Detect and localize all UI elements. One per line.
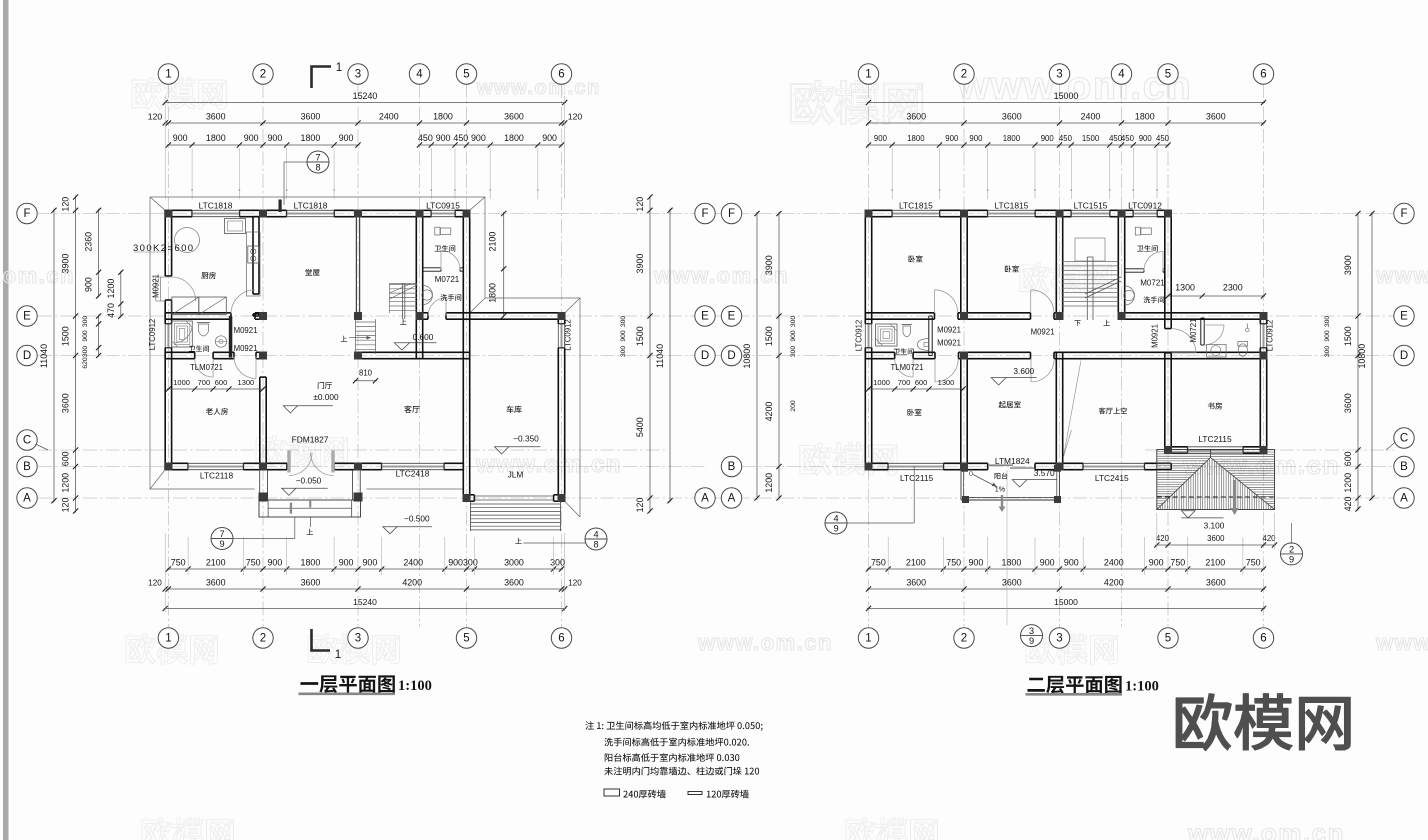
- svg-text:M0721: M0721: [1189, 319, 1198, 343]
- plan1 outside steps at kitchen door: [155, 277, 157, 301]
- plan2 bottom extension lines: [887, 537, 889, 575]
- svg-text:M0921: M0921: [937, 326, 961, 335]
- svg-text:3600: 3600: [301, 112, 321, 122]
- svg-text:3600: 3600: [301, 578, 321, 588]
- plan1 axis circles bottom: [158, 628, 178, 648]
- plan2 balcony door LTM1824 sliding: [989, 464, 1013, 466]
- svg-text:1300: 1300: [238, 378, 255, 387]
- plan2 window LTC1815 bay1-2: [892, 210, 939, 216]
- legend 240 wall symbol: [604, 789, 620, 796]
- svg-text:1: 1: [335, 649, 341, 661]
- svg-text:D: D: [701, 350, 709, 362]
- svg-text:B: B: [23, 461, 31, 473]
- svg-text:1: 1: [165, 69, 171, 81]
- svg-text:900: 900: [945, 134, 959, 143]
- svg-text:3600: 3600: [906, 112, 926, 122]
- plan2 left overall dim 10800: [756, 212, 758, 500]
- svg-text:C: C: [1400, 433, 1408, 445]
- plan1 bath1 sink: [215, 336, 226, 347]
- plan2 bath door arc top: [1144, 252, 1163, 271]
- plan2 room label balcony: [995, 473, 1008, 480]
- watermark texts: [132, 78, 226, 109]
- svg-text:5: 5: [463, 69, 469, 81]
- plan1 left overall dim 11040: [53, 209, 55, 502]
- plan1 garage ramp: [470, 501, 472, 531]
- plan1 top bath door arc: [441, 251, 460, 270]
- plan2 balcony drain arrow: [1001, 495, 1003, 508]
- svg-text:4: 4: [593, 529, 598, 539]
- svg-text:LTC0912: LTC0912: [1128, 201, 1162, 211]
- svg-text:2400: 2400: [403, 558, 423, 568]
- plan1 top overall dim 15240: [164, 102, 567, 104]
- svg-text:11040: 11040: [39, 344, 49, 368]
- plan1 axis circles right mid-column: [695, 203, 715, 223]
- svg-text:750: 750: [1170, 558, 1185, 568]
- svg-text:450: 450: [1156, 134, 1170, 143]
- plan1 top bath toilet: [435, 227, 440, 235]
- svg-text:LTC2115: LTC2115: [900, 473, 934, 483]
- plan2 right overall dim 10800: [1371, 212, 1373, 500]
- svg-text:900: 900: [267, 558, 282, 568]
- plan2 bedroom2 door arc: [1031, 290, 1054, 313]
- svg-text:LTC0912: LTC0912: [564, 319, 573, 351]
- plan2 top-right dim 1300/2300: [1167, 295, 1266, 297]
- plan2 interior dim 1000/700/600/1300: [867, 388, 965, 390]
- plan1 wall along F: [165, 209, 192, 211]
- plan2 window LTC2415 at B: [1083, 463, 1144, 469]
- svg-text:−0.050: −0.050: [296, 475, 322, 485]
- plan1 left window chain 300/900/300: [98, 315, 100, 358]
- plan2 balcony leader line: [1006, 470, 1008, 625]
- svg-text:F: F: [728, 208, 735, 220]
- svg-text:900: 900: [339, 558, 354, 568]
- plan2 bottom bay dims row: [867, 588, 1265, 590]
- plan1 garage ramp up label: [515, 538, 521, 544]
- svg-text:1200: 1200: [61, 473, 71, 493]
- svg-text:11040: 11040: [655, 344, 665, 368]
- plan2 wall along F: [865, 209, 892, 211]
- svg-text:2100: 2100: [1205, 558, 1225, 568]
- svg-text:120: 120: [635, 498, 645, 513]
- plan1 left wall axis1: [164, 210, 166, 276]
- svg-text:C: C: [23, 435, 31, 447]
- svg-text:LTC1515: LTC1515: [1074, 201, 1108, 211]
- plan1 wall axis6 garage right: [557, 313, 559, 324]
- svg-text:F: F: [701, 208, 708, 220]
- plan1 callout 4/8: [585, 528, 607, 550]
- plan2 window LTC1515 bay3-4: [1071, 210, 1109, 216]
- plan2 title: [1027, 676, 1121, 694]
- plan2 small bath partition: [1200, 318, 1202, 345]
- svg-text:4: 4: [833, 513, 838, 523]
- svg-text:900: 900: [362, 558, 377, 568]
- svg-text:B: B: [1400, 461, 1408, 473]
- plan2 left bath shower: [876, 324, 898, 346]
- svg-text:3600: 3600: [906, 578, 926, 588]
- svg-text:2100: 2100: [488, 232, 498, 252]
- plan1 window LTC1818 bay1-2: [192, 210, 239, 216]
- svg-text:6: 6: [558, 69, 564, 81]
- plan1 wall along B: [165, 462, 188, 464]
- svg-text:300: 300: [550, 558, 565, 568]
- plan2 small bath door arc: [1204, 325, 1224, 345]
- plan2 room label bedroom2: [1005, 265, 1019, 272]
- plan2 columns: [865, 210, 873, 218]
- plan2 wall along B: [865, 462, 888, 464]
- plan2 room label washroom: [1143, 296, 1164, 303]
- svg-text:2360: 2360: [84, 232, 94, 252]
- svg-text:M0921: M0921: [234, 344, 258, 353]
- svg-text:450: 450: [418, 133, 433, 143]
- svg-text:750: 750: [171, 558, 186, 568]
- horizontal axis line E: [38, 315, 1394, 317]
- svg-text:700: 700: [198, 378, 211, 387]
- svg-text:2: 2: [1289, 544, 1294, 554]
- svg-text:1800: 1800: [1135, 112, 1155, 122]
- svg-text:1800: 1800: [504, 133, 524, 143]
- plan1 window LTC2118 at B: [188, 463, 243, 469]
- svg-text:900: 900: [1041, 134, 1055, 143]
- svg-text:www.om.cn: www.om.cn: [475, 451, 622, 478]
- plan1 elder room door arc: [234, 357, 256, 379]
- plan1 kitchen circle: [175, 228, 200, 253]
- plan1 stair up label: [400, 319, 406, 325]
- plan2 left bath sink: [918, 339, 929, 351]
- horizontal axis line C: [38, 449, 665, 451]
- plan2 axis circles left column: [721, 203, 741, 223]
- svg-text:www.om.cn: www.om.cn: [1187, 818, 1345, 840]
- svg-text:900: 900: [969, 134, 983, 143]
- svg-text:2400: 2400: [379, 112, 399, 122]
- plan2 axis circles bottom: [858, 628, 878, 648]
- plan1 room label living room: [404, 406, 419, 413]
- svg-text:3600: 3600: [504, 112, 524, 122]
- svg-text:M0921: M0921: [152, 274, 161, 298]
- svg-text:7: 7: [219, 529, 224, 539]
- plan1 room label bathroom left: [189, 345, 209, 351]
- svg-text:900: 900: [339, 133, 354, 143]
- svg-text:6: 6: [558, 633, 564, 645]
- svg-text:JLM: JLM: [508, 470, 524, 480]
- plan1 window LTC0915 bay4-5: [431, 210, 455, 216]
- horizontal axis line A: [38, 497, 1394, 499]
- plan2 callout 3/9: [1021, 625, 1043, 647]
- svg-text:15240: 15240: [353, 91, 378, 101]
- svg-text:900: 900: [244, 133, 259, 143]
- svg-text:120: 120: [568, 579, 582, 588]
- plan1 overhang corner ties: [150, 197, 165, 210]
- svg-text:3.600: 3.600: [1013, 366, 1034, 376]
- plan1 window LTC0912 garage right wall: [558, 324, 564, 348]
- plan1 kitchen-hall partition: [252, 217, 254, 294]
- plan2 small bath toilet: [1238, 344, 1247, 356]
- svg-text:LTC1815: LTC1815: [994, 201, 1028, 211]
- svg-text:3900: 3900: [1343, 255, 1353, 275]
- plan1 interior dim 1000/700/600/1300: [167, 388, 265, 390]
- plan1 title: [300, 675, 394, 693]
- plan1 bottom sub dims row: [167, 568, 563, 570]
- svg-text:M0921: M0921: [937, 339, 961, 348]
- svg-text:FDM1827: FDM1827: [292, 435, 329, 445]
- svg-text:www.om.cn: www.om.cn: [1375, 630, 1428, 655]
- svg-text:900: 900: [874, 134, 888, 143]
- plan1 washroom sink: [423, 286, 433, 305]
- notes line2: [604, 738, 749, 747]
- svg-text:10800: 10800: [742, 344, 752, 369]
- plan1 kitchen counter and stove: [247, 232, 261, 296]
- svg-text:4200: 4200: [1104, 578, 1124, 588]
- svg-text:15240: 15240: [353, 597, 377, 607]
- plan1 lower flight up label: [341, 336, 347, 342]
- svg-text:600: 600: [215, 378, 228, 387]
- svg-text:2400: 2400: [1104, 558, 1124, 568]
- svg-text:1500: 1500: [1343, 326, 1353, 346]
- svg-text:D: D: [727, 350, 735, 362]
- svg-text:120: 120: [148, 112, 163, 122]
- plan2 bedroom1 door arc: [935, 290, 958, 313]
- svg-text:120: 120: [635, 197, 645, 212]
- svg-text:F: F: [1400, 208, 1407, 220]
- plan2 left wall: [864, 210, 866, 324]
- svg-text:900: 900: [448, 558, 463, 568]
- svg-text:9: 9: [833, 524, 838, 534]
- svg-text:3900: 3900: [61, 254, 71, 274]
- svg-text:LTC2115: LTC2115: [1198, 434, 1232, 444]
- svg-text:1800: 1800: [433, 112, 453, 122]
- svg-text:A: A: [701, 493, 709, 505]
- svg-text:3600: 3600: [504, 578, 524, 588]
- plan2 window LTC0912 left wall: [865, 324, 871, 348]
- svg-text:0.600: 0.600: [413, 332, 434, 342]
- plan1 room label hall-front: [305, 269, 319, 276]
- plan2 balcony corner columns: [961, 465, 968, 472]
- svg-text:900: 900: [790, 330, 797, 342]
- svg-text:300: 300: [82, 316, 89, 328]
- plan1 room label garage: [506, 406, 521, 414]
- plan1 bottom extension lines: [187, 537, 189, 575]
- svg-text:1: 1: [865, 633, 871, 645]
- plan2 right main chain: [1357, 212, 1359, 511]
- notes line3: [605, 753, 740, 762]
- plan2 callout 4/9: [825, 512, 847, 534]
- svg-text:1%: 1%: [995, 485, 1006, 494]
- svg-text:6: 6: [1260, 69, 1266, 81]
- svg-text:www.om.cn: www.om.cn: [1375, 263, 1428, 288]
- svg-text:450: 450: [453, 133, 468, 143]
- plan1 dim 810: [354, 380, 377, 382]
- plan2 roof gray arrows: [1233, 480, 1236, 510]
- plan1 left sub chain 2360/900: [98, 209, 100, 298]
- plan1 room label washroom: [440, 294, 461, 301]
- svg-text:LTC0912: LTC0912: [855, 320, 864, 352]
- svg-text:1: 1: [336, 62, 342, 74]
- plan1 stair rail: [390, 284, 418, 286]
- svg-text:420: 420: [1156, 534, 1170, 543]
- svg-text:M0921: M0921: [1151, 324, 1160, 348]
- svg-text:2300: 2300: [1223, 283, 1243, 293]
- svg-text:4: 4: [416, 69, 423, 81]
- plan1 bath partition y=269.5: [423, 267, 441, 269]
- notes line1: [585, 721, 762, 731]
- horizontal axis line D: [38, 355, 1394, 357]
- plan2 bedroom3 door arc: [935, 359, 958, 382]
- svg-text:3: 3: [355, 633, 361, 645]
- plan1 lower step flight: [355, 319, 357, 354]
- plan2 stairs down label: [1074, 320, 1080, 326]
- plan2 room label living void: [1099, 407, 1127, 414]
- plan2 wall along E: [865, 312, 934, 314]
- svg-text:120: 120: [568, 112, 583, 122]
- svg-text:2400: 2400: [1081, 112, 1101, 122]
- svg-text:LTC2415: LTC2415: [1095, 473, 1129, 483]
- plan2 room label bathroom top: [1137, 245, 1158, 252]
- svg-text:1500: 1500: [1082, 134, 1100, 143]
- svg-text:E: E: [728, 311, 736, 323]
- plan1 window LTC1818 bay2-3: [287, 210, 334, 216]
- svg-text:6: 6: [1260, 633, 1266, 645]
- svg-text:900: 900: [1040, 558, 1055, 568]
- plan1 room label entry hall: [318, 382, 332, 389]
- plan2 room label bathroom left: [894, 348, 914, 354]
- svg-text:750: 750: [1246, 558, 1261, 568]
- svg-text:900: 900: [173, 133, 188, 143]
- svg-text:1800: 1800: [1002, 558, 1022, 568]
- plan1 right garage window sub dims 2100/1800: [503, 212, 505, 318]
- svg-text:2: 2: [260, 69, 266, 81]
- svg-text:1200: 1200: [764, 473, 774, 493]
- svg-text:1800: 1800: [1003, 134, 1021, 143]
- svg-text:300: 300: [1324, 346, 1331, 358]
- svg-text:7: 7: [315, 152, 320, 162]
- svg-text:900: 900: [1139, 134, 1153, 143]
- svg-text:3600: 3600: [1343, 393, 1353, 413]
- plan1 garage wall along A with JLM opening: [463, 494, 474, 496]
- svg-text:−0.350: −0.350: [513, 433, 539, 443]
- plan2 stairs up label: [1104, 320, 1110, 326]
- plan2 room label living room 2F: [999, 401, 1021, 408]
- svg-text:D: D: [1400, 350, 1408, 362]
- plan2 window LTC0912 right wall: [1260, 324, 1266, 348]
- svg-text:9: 9: [219, 539, 224, 549]
- svg-text:D: D: [23, 350, 31, 362]
- svg-text:M0921: M0921: [1031, 328, 1055, 337]
- plan2 top overall dim 15000: [867, 102, 1265, 104]
- plan2 void break line: [1064, 361, 1082, 457]
- svg-text:1:100: 1:100: [1125, 679, 1159, 695]
- svg-text:8: 8: [593, 540, 598, 550]
- svg-text:M0721: M0721: [1140, 279, 1165, 288]
- plan2 vent pipe: [1246, 324, 1248, 329]
- svg-text:3.570: 3.570: [1034, 468, 1055, 478]
- plan2 left bath partition: [928, 316, 930, 356]
- svg-text:900: 900: [620, 330, 627, 342]
- plan1 kitchen sink: [225, 219, 246, 234]
- notes line4: [604, 767, 759, 776]
- plan1 porch step arrow: [309, 517, 311, 527]
- plan1 top extension lines: [191, 148, 193, 199]
- svg-text:300: 300: [82, 346, 89, 358]
- plan1 room label kitchen: [201, 272, 215, 279]
- svg-text:5: 5: [1165, 633, 1171, 645]
- svg-text:120: 120: [61, 498, 71, 513]
- svg-text:600: 600: [915, 378, 928, 387]
- plan2 window LTC1815 bay2-3: [988, 210, 1035, 216]
- plan2 stairs break line: [1062, 261, 1119, 263]
- svg-text:3600: 3600: [1206, 578, 1226, 588]
- svg-text:B: B: [728, 461, 736, 473]
- svg-text:900: 900: [436, 133, 451, 143]
- svg-text:1:100: 1:100: [398, 678, 432, 694]
- plan2 wall axis4 stairwell right: [1117, 210, 1119, 319]
- svg-text:120: 120: [148, 579, 162, 588]
- svg-text:±0.000: ±0.000: [313, 392, 339, 402]
- svg-text:200: 200: [790, 400, 797, 412]
- svg-text:5: 5: [463, 633, 469, 645]
- svg-text:2: 2: [260, 633, 266, 645]
- svg-text:3: 3: [1029, 626, 1034, 636]
- plan1 columns: [164, 210, 172, 218]
- svg-text:300: 300: [790, 316, 797, 328]
- plan2 axis circles top: [858, 64, 878, 84]
- svg-text:1800: 1800: [206, 133, 226, 143]
- svg-text:1500: 1500: [635, 326, 645, 346]
- svg-text:3000: 3000: [504, 558, 524, 568]
- plan1 kitchen-hall door arc: [231, 290, 255, 314]
- svg-text:420: 420: [1262, 534, 1276, 543]
- legend 120 wall symbol: [688, 792, 702, 795]
- svg-text:3: 3: [355, 69, 361, 81]
- svg-text:E: E: [1400, 311, 1408, 323]
- svg-text:15000: 15000: [1054, 597, 1078, 607]
- svg-text:4200: 4200: [402, 578, 422, 588]
- plan1 wall along E: [165, 312, 231, 314]
- svg-text:3: 3: [1056, 69, 1062, 81]
- svg-text:TLM0721: TLM0721: [891, 363, 924, 372]
- svg-text:1800: 1800: [301, 558, 321, 568]
- svg-text:3600: 3600: [1002, 112, 1022, 122]
- svg-text:3600: 3600: [1206, 112, 1226, 122]
- plan2 room label bedroom3: [907, 409, 921, 416]
- svg-text:3600: 3600: [1002, 578, 1022, 588]
- svg-text:5400: 5400: [635, 417, 645, 437]
- svg-text:9: 9: [1029, 636, 1034, 646]
- plan2 wall axis6: [1259, 313, 1261, 324]
- plan2 corridor door arc at axis5: [1172, 329, 1196, 353]
- plan1 right overall dim 11040: [669, 209, 671, 502]
- svg-text:TLM0721: TLM0721: [190, 363, 223, 372]
- plan1 room label elder room: [206, 408, 228, 415]
- plan1 flue at top wall: [279, 200, 282, 213]
- svg-text:2100: 2100: [906, 558, 926, 568]
- svg-text:8: 8: [315, 163, 320, 173]
- plan2 small bath sink: [1207, 345, 1227, 358]
- svg-text:1000: 1000: [873, 378, 890, 387]
- plan1 right main chain 120/3900/1500/5400/120: [649, 196, 651, 513]
- svg-text:E: E: [701, 311, 709, 323]
- svg-text:A: A: [1400, 493, 1408, 505]
- svg-text:900: 900: [84, 277, 94, 292]
- svg-text:300: 300: [463, 558, 478, 568]
- plan2 roof sub dim 420/3600/420: [1155, 544, 1276, 546]
- horizontal axis line F: [38, 213, 1394, 215]
- plan1 left main chain 120/3900/1500/3600/600/1200/120: [75, 196, 77, 513]
- svg-text:900: 900: [542, 133, 557, 143]
- plan1 section mark top: [312, 67, 332, 89]
- plan2 bottom overall dim 15000: [867, 608, 1265, 610]
- plan2 left bath door TLM0721 arc: [895, 359, 913, 377]
- svg-text:www.om.cn: www.om.cn: [957, 64, 1192, 108]
- svg-text:5: 5: [1165, 69, 1171, 81]
